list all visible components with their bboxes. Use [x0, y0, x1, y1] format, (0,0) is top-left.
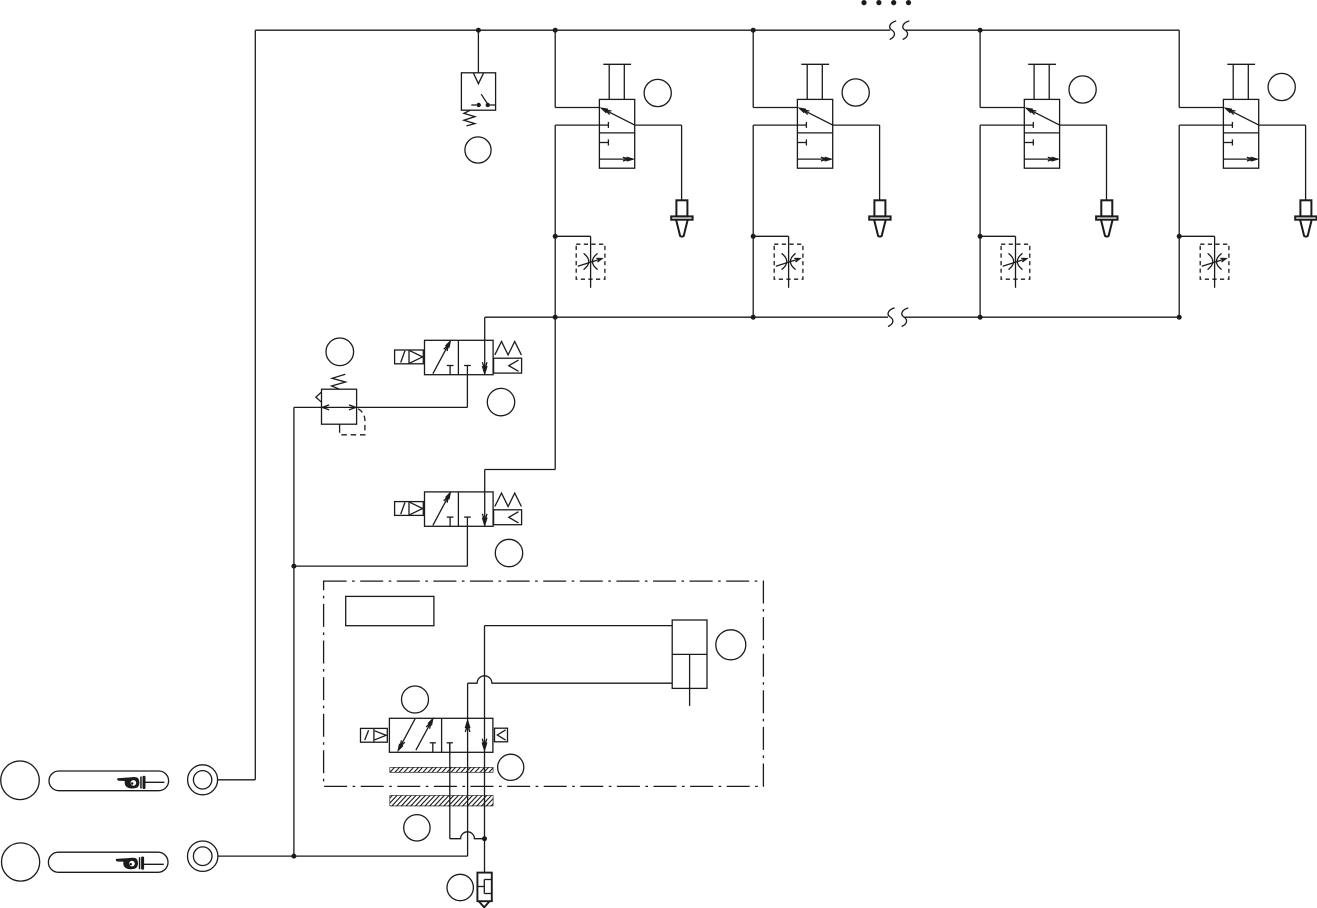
- 3/2 solenoid valve SV2 body: [425, 492, 494, 526]
- wire: branch 1 valve outlet to vacuum pad P1: [635, 124, 682, 126]
- wire: branch 2 tap to flow control F2: [753, 235, 788, 237]
- regulator R1 relief arrow: [316, 392, 322, 402]
- valve V3 flow path arrow (open position): [1026, 108, 1059, 125]
- valve V4 plunger actuator: [1232, 64, 1234, 99]
- wire stub inside hand valve H2 pill: [143, 863, 164, 865]
- junction at silencer line: [482, 836, 487, 841]
- flow control valve F4 adjustment arrow: [1202, 259, 1226, 267]
- junction at flow control F3 tap: [978, 234, 983, 239]
- regulator R1 adjustment spring: [332, 374, 346, 389]
- regulator R1 flow arrows: [322, 405, 329, 410]
- wire: solenoid valve SV2 top port up and over to distribution bus: [484, 470, 486, 492]
- wire: branch 4 feed from top bus to valve V4 inlet: [1178, 30, 1180, 107]
- 3/2 plunger valve V2 body: [797, 99, 832, 168]
- wire: branch 2 feed from top bus to valve V2 inlet: [752, 30, 754, 107]
- flow control valve F2 restrictor arcs: [782, 253, 787, 269]
- valve MV1 crossed flow path arrow (down-left): [398, 719, 415, 750]
- junction on distribution bus at branch 1: [553, 315, 558, 320]
- wire: branch 4 valve outlet to vacuum pad P4: [1259, 124, 1306, 126]
- balloon label circle for silencer S1: [447, 874, 473, 900]
- balloon label circle for valve V1: [644, 79, 671, 106]
- solenoid valve SV2 blocked port (left): [449, 517, 451, 526]
- solenoid valve SV1 blocked port (left): [449, 366, 451, 375]
- solenoid valve SV2 flow path arrow (open cell): [433, 493, 450, 525]
- wire: branch 1 valve V1 port to distribution bus: [555, 124, 599, 126]
- solenoid valve SV2 return spring: [495, 493, 522, 506]
- flow control valve F3 adjustment arrow: [1003, 259, 1027, 267]
- solenoid valve SV2 solenoid actuator: [395, 502, 424, 516]
- wire: intermediate distribution bus (right segment after line break): [904, 316, 1179, 318]
- valve MV1 up-flow arrowhead: [465, 721, 470, 729]
- valve MV1 pilot box: [495, 728, 508, 742]
- flow control valve F1 restrictor arcs: [584, 253, 589, 269]
- valve V4 flow path arrow (open position): [1226, 108, 1259, 125]
- flow control valve F4 enclosure (dashed): [1200, 244, 1229, 279]
- solenoid valve SV1 blocked port (right): [466, 366, 468, 375]
- wire: supply riser from hand valve 2 junction up to regulator line: [293, 407, 295, 856]
- junction at flow control F4 tap: [1177, 234, 1182, 239]
- hand valve H1 lever (pill outline): [49, 771, 169, 791]
- hand valve H1 pointing-hand glyph: [117, 776, 145, 789]
- valve V4 blocked port (top cell): [1223, 124, 1232, 126]
- solenoid valve SV1 flow path arrow (open cell): [433, 341, 450, 373]
- flow control valve F1 enclosure (dashed): [576, 244, 605, 279]
- solenoid valve SV2 pilot box: [494, 510, 522, 525]
- solenoid valve SV1 straight flow path with down arrow: [484, 340, 486, 374]
- ejector unit enclosure (dash-dot box): [324, 581, 764, 786]
- pressure switch PS1 body: [461, 73, 495, 110]
- flow control valve F2 adjustment arrow: [776, 259, 800, 267]
- solenoid valve SV2 blocked port (right): [466, 517, 468, 526]
- hand valve H2 lever (pill outline): [48, 852, 168, 872]
- solenoid valve SV1 pilot box: [494, 358, 522, 373]
- flow control valve F3 restrictor arcs: [1009, 253, 1014, 269]
- wire: branch 4 tap to flow control F4: [1179, 235, 1214, 237]
- wire: branch 3 tap to flow control F3: [980, 235, 1015, 237]
- 3/2 plunger valve V3 body: [1024, 99, 1059, 168]
- balloon label circle for valve V4: [1268, 73, 1295, 100]
- wire: branch 2 valve outlet to vacuum pad P2: [833, 124, 880, 126]
- vacuum pad P3: [1101, 200, 1112, 216]
- junction on top bus at pressure switch drop: [476, 28, 481, 33]
- line-break squiggle on distribution bus (left): [888, 308, 895, 327]
- junction on distribution bus at branch 4: [1177, 315, 1182, 320]
- wire: branch 1 feed from top bus to valve V1 inlet: [554, 30, 556, 107]
- solenoid valve SV1 solenoid actuator: [395, 350, 424, 364]
- junction on distribution bus at branch 2: [751, 315, 756, 320]
- flow control valve F2 enclosure (dashed): [774, 244, 803, 279]
- regulator R1 pilot feedback line (dashed): [339, 424, 341, 430]
- flow control valve F4 restrictor arcs: [1208, 253, 1213, 269]
- wire: branch 3 feed from top bus to valve V3 inlet: [979, 30, 981, 107]
- balloon label circle for valve V2: [842, 79, 869, 106]
- vacuum ejector block E1: [672, 620, 707, 688]
- solenoid valve SV2 straight flow path with down arrow: [484, 492, 486, 526]
- wire: top supply bus (right segment after line break): [905, 29, 1179, 31]
- valve V4 blocked port (bottom cell): [1223, 142, 1232, 144]
- junction on top bus at branch 3: [978, 28, 983, 33]
- balloon label circle for regulator R1: [326, 338, 354, 366]
- balloon label circle for solenoid valve SV1: [487, 388, 514, 415]
- junction on top bus at branch 2: [751, 28, 756, 33]
- wire: branch 4 valve V4 port to distribution bus: [1179, 124, 1223, 126]
- mounting plate (hatched) inside ejector unit: [390, 767, 494, 773]
- silencer S1 outlet tip: [479, 901, 490, 907]
- balloon label circle for lower plate: [404, 815, 430, 841]
- wire: branch 3 valve outlet to vacuum pad P3: [1060, 124, 1107, 126]
- valve V1 plunger actuator: [608, 64, 610, 99]
- junction of SV2 outlet with supply riser: [291, 564, 296, 569]
- 3/2 solenoid valve SV1 body: [425, 340, 494, 374]
- pressure regulator R1 body: [322, 389, 357, 424]
- valve MV1 blocked port (right): [449, 743, 451, 753]
- wire: solenoid valve SV1 top port to distribution bus: [484, 317, 486, 340]
- valve V3 flow path arrow (closed position): [1024, 158, 1058, 160]
- balloon circle for hand valve H1: [1, 761, 40, 800]
- valve V3 blocked port (bottom cell): [1024, 142, 1033, 144]
- junction at flow control F1 tap: [553, 234, 558, 239]
- wire: regulator flow line: [294, 406, 468, 408]
- wire: ejector block exhaust stub: [689, 688, 691, 706]
- wire: branch 2 valve V2 port to distribution bus: [753, 124, 797, 126]
- balloon label circle for valve V3: [1069, 76, 1096, 103]
- solenoid valve SV1 return spring: [495, 342, 522, 355]
- hand valve H2 pointing-hand glyph: [116, 857, 144, 870]
- valve V3 blocked port (top cell): [1024, 124, 1033, 126]
- silencer S1 body: [477, 873, 491, 902]
- valve V1 flow path arrow (open position): [602, 108, 635, 125]
- 5/2 solenoid valve MV1 body: [389, 718, 493, 752]
- pressure switch PS1 electrical contact: [471, 104, 476, 106]
- valve V1 flow path arrow (closed position): [599, 158, 633, 160]
- wire: hand valve H1 port to left supply riser: [218, 779, 256, 781]
- balloon label circle for solenoid valve SV2: [495, 539, 522, 566]
- valve V3 plunger actuator: [1033, 64, 1035, 99]
- connection port circle for hand valve H2: [188, 841, 218, 871]
- valve V2 blocked port (bottom cell): [797, 142, 806, 144]
- wire: supply line from hand valve 1 up left side to top bus: [254, 30, 256, 780]
- balloon label circle for pressure switch PS1: [465, 137, 491, 163]
- vacuum pad P4: [1300, 200, 1311, 216]
- wire: solenoid valve SV1 bottom port to regulator output line: [466, 375, 468, 408]
- valve V2 blocked port (top cell): [797, 124, 806, 126]
- line-break squiggle on top bus (right): [903, 21, 910, 40]
- junction of hand valve H2 line with supply riser: [291, 854, 296, 859]
- valve V2 flow path arrow (open position): [800, 108, 833, 125]
- wire: solenoid valve SV2 bottom port left to supply riser: [466, 526, 468, 566]
- vacuum pad P2: [874, 200, 885, 216]
- line-break squiggle on top bus (left): [890, 21, 897, 40]
- wire: hand valve H2 port to ejector supply line: [218, 855, 468, 857]
- wire: supply line up through valve MV1 with crossover hop: [467, 683, 469, 856]
- ejector unit name label box: [346, 596, 434, 625]
- flow control valve F3 enclosure (dashed): [1001, 244, 1030, 279]
- pressure switch PS1 spring: [464, 110, 475, 126]
- balloon label circle for upper plate: [498, 754, 524, 780]
- wire: branch 1 tap to flow control F1: [555, 235, 590, 237]
- wire: valve MV1 exhaust port line with crossover hop: [449, 743, 451, 839]
- 3/2 plunger valve V4 body: [1223, 99, 1258, 168]
- 3/2 plunger valve V1 body: [599, 99, 634, 168]
- junction at flow control F2 tap: [751, 234, 756, 239]
- connection port circle for hand valve H1: [188, 765, 218, 795]
- valve V4 flow path arrow (closed position): [1223, 158, 1257, 160]
- wire: valve MV1 down-flow line / pad port line to silencer: [484, 626, 486, 873]
- flow control valve F1 adjustment arrow: [578, 259, 602, 267]
- wire: branch 3 valve V3 port to distribution bus: [980, 124, 1024, 126]
- valve MV1 blocked port (left): [432, 743, 434, 753]
- junction on distribution bus at branch 3: [978, 315, 983, 320]
- continuation ellipsis dots above top bus: [861, 0, 866, 5]
- valve V1 blocked port (bottom cell): [599, 142, 608, 144]
- balloon circle for hand valve H2: [2, 843, 40, 881]
- vacuum pad P1: [676, 200, 687, 216]
- valve V2 flow path arrow (closed position): [797, 158, 831, 160]
- valve MV1 crossed flow path arrow (up-right): [416, 719, 433, 750]
- valve MV1 solenoid actuator: [361, 728, 388, 742]
- valve V1 blocked port (top cell): [599, 124, 608, 126]
- wire stub inside hand valve H1 pill: [144, 781, 165, 783]
- wire: ejector top port line: [485, 625, 673, 627]
- balloon label circle for valve MV1: [402, 686, 429, 713]
- balloon label circle for ejector block E1: [716, 630, 746, 660]
- junction on top bus at branch 1: [553, 28, 558, 33]
- wire: top supply bus (left segment to line break): [255, 29, 890, 31]
- wire: intermediate distribution bus (left segment to line break): [485, 316, 888, 318]
- valve V2 plunger actuator: [806, 64, 808, 99]
- mounting plate (hatched) below ejector unit: [390, 795, 494, 806]
- line-break squiggle on distribution bus (right): [902, 308, 909, 327]
- wire: drop from top bus to pressure switch PS1: [477, 30, 479, 73]
- valve MV1 down-flow arrowhead: [482, 743, 487, 751]
